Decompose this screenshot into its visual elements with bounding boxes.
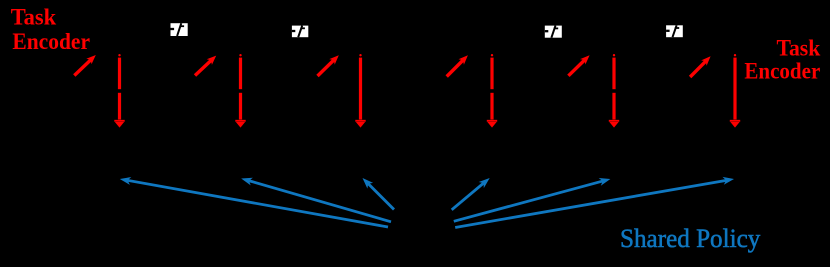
frozen-icon chip 1 — [171, 23, 188, 36]
blue arrow to task 3 — [363, 178, 395, 210]
red diagonal arrow 1 — [74, 55, 96, 76]
red vertical arrow 6 — [730, 54, 740, 128]
red vertical arrow 5 — [609, 54, 619, 128]
svg-text:Shared Policy: Shared Policy — [620, 224, 760, 253]
blue arrow to task 5 — [454, 178, 611, 221]
frozen-icon chip 2 — [292, 26, 308, 38]
red vertical arrow 4 — [487, 54, 497, 128]
frozen-icon chip 3 — [545, 26, 562, 38]
blue arrow to task 4 — [452, 178, 490, 210]
red diagonal arrow 4 — [447, 55, 468, 76]
svg-text:Task: Task — [777, 36, 821, 61]
svg-text:Encoder: Encoder — [12, 29, 90, 54]
red diagonal arrow 5 — [568, 55, 589, 76]
blue arrow to task 1 — [120, 177, 388, 227]
red diagonal arrow 2 — [195, 56, 216, 76]
red vertical arrow 2 — [235, 54, 245, 128]
red vertical arrow 1 — [114, 54, 124, 128]
blue arrow to task 2 — [241, 178, 391, 222]
frozen-icon chip 4 — [666, 25, 683, 37]
label: Task Encoder (right) — [744, 36, 820, 84]
red diagonal arrow 3 — [318, 55, 339, 76]
red diagonal arrow 6 — [690, 56, 711, 77]
label: Task Encoder (left) — [11, 5, 90, 54]
blue arrow to task 6 — [455, 177, 734, 228]
red vertical arrow 3 — [355, 54, 365, 128]
svg-text:Encoder: Encoder — [744, 59, 820, 84]
svg-text:Task: Task — [11, 5, 57, 30]
